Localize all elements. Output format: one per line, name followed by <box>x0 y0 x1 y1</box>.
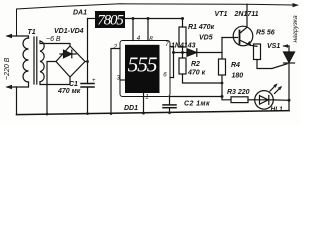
svg-text:DA1: DA1 <box>73 10 87 17</box>
svg-text:3: 3 <box>117 75 121 82</box>
svg-text:7: 7 <box>165 41 169 48</box>
svg-text:8: 8 <box>149 36 153 43</box>
svg-text:R3 220: R3 220 <box>227 89 250 96</box>
svg-text:VT1: VT1 <box>215 11 228 18</box>
svg-text:~220 В: ~220 В <box>4 57 11 80</box>
svg-text:2N1711: 2N1711 <box>234 11 259 18</box>
svg-text:R5 56: R5 56 <box>256 30 275 37</box>
svg-text:нагрузка: нагрузка <box>292 15 299 42</box>
svg-text:VD1-VD4: VD1-VD4 <box>54 28 84 35</box>
svg-text:4: 4 <box>137 35 141 42</box>
svg-text:~6 В: ~6 В <box>46 36 61 43</box>
svg-text:С2 1мк: С2 1мк <box>184 101 210 108</box>
svg-text:С1: С1 <box>69 81 78 88</box>
svg-text:VS1: VS1 <box>267 43 280 50</box>
svg-text:180: 180 <box>232 73 244 80</box>
svg-text:470 к: 470 к <box>187 70 206 77</box>
svg-text:DD1: DD1 <box>124 105 138 112</box>
svg-text:HL1: HL1 <box>271 106 284 113</box>
svg-text:1: 1 <box>145 93 148 100</box>
svg-text:7805: 7805 <box>97 13 124 29</box>
svg-text:1N4143: 1N4143 <box>171 43 196 50</box>
svg-text:+: + <box>92 78 96 84</box>
svg-text:R1 470к: R1 470к <box>188 24 215 31</box>
svg-text:2: 2 <box>113 44 118 51</box>
svg-text:R2: R2 <box>191 61 200 68</box>
svg-text:555: 555 <box>128 53 158 77</box>
svg-text:470 мк: 470 мк <box>57 88 81 95</box>
svg-text:T1: T1 <box>28 29 36 36</box>
svg-text:R4: R4 <box>231 62 240 69</box>
svg-text:VD5: VD5 <box>199 35 213 42</box>
svg-text:6: 6 <box>163 72 167 79</box>
